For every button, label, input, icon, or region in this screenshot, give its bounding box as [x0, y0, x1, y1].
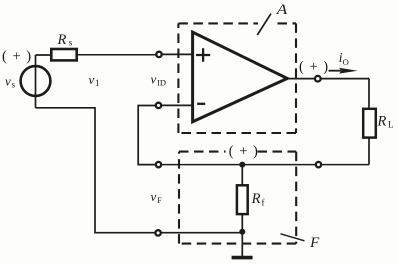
op-amp minus input sign [197, 103, 205, 105]
svg-text:( + ): ( + ) [299, 59, 329, 75]
wire: inverting terminal left and down to feedback terminal [138, 106, 155, 165]
label leader slash for F [281, 234, 305, 241]
svg-text:R: R [251, 191, 261, 207]
svg-text:v: v [5, 74, 11, 89]
junction node: Rf top [239, 162, 245, 168]
svg-text:( + ): ( + ) [2, 49, 32, 65]
terminal: non-inverting input [156, 52, 161, 57]
svg-text:L: L [388, 120, 394, 130]
resistor RL [363, 109, 376, 138]
dashed box A [178, 23, 296, 133]
wire: feedback row from terminal to RL branch [162, 164, 369, 166]
svg-text:( + ): ( + ) [229, 143, 259, 159]
svg-text:v: v [151, 72, 157, 87]
terminal: feedback row left [156, 162, 161, 167]
svg-text:s: s [12, 80, 16, 90]
wire: top-left to Rs [36, 54, 53, 56]
svg-text:R: R [57, 32, 67, 48]
junction node: Rf bottom [239, 229, 245, 235]
svg-text:F: F [309, 235, 319, 251]
wire: source vertical through vs [35, 55, 37, 108]
svg-text:f: f [262, 198, 265, 208]
svg-text:v: v [151, 189, 157, 204]
op-amp plus input sign [196, 48, 210, 62]
terminal: output [315, 76, 321, 82]
wire: Rf branch vertical with ground stem [241, 165, 243, 257]
wire: RL branch vertical [368, 79, 370, 165]
resistor Rf [237, 185, 248, 214]
terminal: bottom row [155, 230, 160, 235]
svg-text:v: v [89, 72, 95, 87]
wire: Rs to non-inverting terminal [77, 54, 157, 56]
terminal: inverting input [156, 103, 161, 108]
svg-text:s: s [69, 38, 73, 48]
svg-text:ID: ID [157, 78, 166, 88]
source vs circle [21, 66, 51, 96]
resistor Rs [51, 49, 76, 60]
wire: left loop bottom of source [36, 108, 156, 233]
wire: bottom row terminal to Rf bottom [161, 232, 242, 234]
svg-text:A: A [276, 2, 288, 18]
svg-text:1: 1 [95, 78, 100, 88]
op-amp U1 triangle [193, 32, 288, 122]
svg-text:F: F [157, 195, 162, 205]
terminal: feedback row right [316, 162, 321, 167]
label leader slash for A [257, 14, 271, 35]
wire: op-amp output to output terminal [287, 78, 315, 80]
wire: inverting terminal to op-amp minus input [162, 104, 194, 106]
current arrow iO [329, 70, 342, 72]
wire: output terminal to RL corner [321, 78, 369, 80]
svg-text:O: O [343, 57, 349, 67]
dashed box F [179, 152, 296, 244]
wire: terminal to op-amp plus input [162, 53, 193, 55]
svg-text:R: R [377, 114, 387, 130]
ground bar [232, 256, 253, 260]
